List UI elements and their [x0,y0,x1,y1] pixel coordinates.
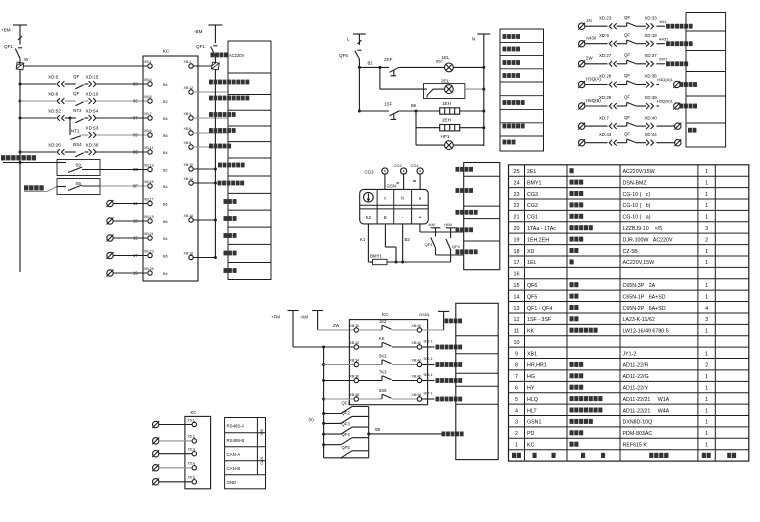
svg-text:+BM: +BM [1,28,11,33]
svg-text:14: 14 [514,294,520,300]
breaker contact QF4 [322,432,369,446]
svg-text:+FM: +FM [271,315,280,320]
pin label minus [402,214,404,220]
pin label c [384,196,387,201]
wire label B4 [163,151,168,155]
terminal XB:30 [350,324,360,332]
supply -KM with breaker QF4 [425,222,464,255]
svg-text:1SF: 1SF [384,101,393,106]
svg-text:PD: PD [527,431,535,437]
BOM row 19 1EH,2EH [514,237,709,244]
wire b pin stub [385,224,397,264]
svg-text:X5:5: X5:5 [188,476,195,480]
wire K1 [360,224,373,262]
svg-text:1EL: 1EL [442,55,451,60]
svg-text:X5:2: X5:2 [188,435,195,439]
svg-text:LZZBJ9-10 ×/5: LZZBJ9-10 ×/5 [623,226,663,232]
sensor CG1 [411,163,424,174]
exit wire 905-1 [422,373,435,380]
terminal XB:19 [144,215,154,223]
wire label B4 [163,237,168,241]
spare wire terminal row y255 [107,252,148,259]
svg-text:11: 11 [133,201,138,206]
svg-text:XB:6: XB:6 [184,127,192,131]
group label CAN [260,457,264,465]
contact row XD:5 / QF / XD:15 [19,74,148,89]
description text row [456,210,478,215]
svg-text:XB:1: XB:1 [144,60,152,64]
svg-text:H5Q(B)1: H5Q(B)1 [657,99,674,104]
BOM row 7 HG [515,373,708,380]
terminal XB:15 [144,180,154,188]
svg-text:XB:3: XB:3 [144,78,152,82]
svg-text:XB:10: XB:10 [184,163,194,167]
svg-text:XB:18: XB:18 [184,251,194,255]
svg-text:B2: B2 [368,60,374,65]
svg-text:1: 1 [705,397,708,403]
label CAN-A [227,452,241,457]
contact row XD:28 / QF / XD:38 [578,73,680,88]
label kongzhi dianyuan AC220V [211,53,245,59]
wire minus pin [401,224,410,264]
svg-text:HLQ: HLQ [527,397,538,403]
svg-text:XD:43: XD:43 [599,132,612,137]
wire row3 [359,110,389,112]
output description text [442,432,464,437]
svg-text:6: 6 [515,386,518,392]
svg-text:QF: QF [73,74,80,79]
svg-text:KC: KC [382,312,389,318]
signal table RS485/CAN [225,418,266,489]
svg-text:1SF - 3SF: 1SF - 3SF [527,317,552,323]
svg-text:QF5: QF5 [527,294,537,300]
terminal XB:36 [350,374,360,382]
pin label K2 [366,215,372,220]
svg-text:1: 1 [705,260,708,266]
comm wire terminal X5:5 [152,476,196,486]
svg-text:DXN8D-10Q: DXN8D-10Q [623,420,653,426]
svg-text:1EL: 1EL [527,260,536,266]
pin label b [401,196,404,201]
breaker contact QF1 [322,401,369,415]
svg-text:XD:15: XD:15 [86,75,99,80]
description text row [503,124,525,129]
terminal XB:13 [144,163,154,171]
BOM row 12 1SF - 3SF [514,316,709,323]
svg-text:DSN-BMZ: DSN-BMZ [623,180,648,186]
svg-text:485: 485 [260,429,264,435]
BOM row 13 QF1 - QF4 [514,305,709,312]
left feeder bus [323,347,325,458]
svg-text:7K3: 7K3 [379,370,387,375]
svg-text:PDM-803AC: PDM-803AC [623,431,653,437]
svg-text:22: 22 [514,203,520,209]
description text row [456,167,474,172]
svg-text:HY: HY [527,386,535,392]
svg-text:15: 15 [514,283,520,289]
svg-text:XD:10: XD:10 [86,92,99,97]
terminal XB:2 [184,60,213,68]
svg-text:XB:5: XB:5 [144,95,152,99]
svg-text:QF3: QF3 [342,421,351,426]
terminal XB:10 [184,163,217,171]
svg-text:CG-10 ( a): CG-10 ( a) [623,215,651,221]
svg-text:18: 18 [514,249,520,255]
description text row [503,60,521,65]
svg-text:HP1: HP1 [441,134,450,139]
BOM row 5 HLQ [515,396,708,403]
sensor CG2 [394,163,407,174]
terminal XB:40 [412,324,422,332]
terminal XB:18 [184,251,217,259]
svg-text:B2: B2 [163,100,168,104]
svg-text:13: 13 [133,219,138,224]
row description text [666,61,688,66]
wire BMY1 to +KM branch [387,261,451,263]
svg-text:QF5: QF5 [342,445,351,450]
svg-text:XB:19: XB:19 [144,215,154,219]
wire row1 (gray) [318,323,355,330]
sensor CG3 [365,168,389,174]
description box A [228,41,271,280]
description text row [209,80,249,85]
terminal XB:1 [144,60,152,68]
svg-text:QF: QF [73,91,80,96]
terminal XB:21 [144,232,154,240]
BOM row 6 HY [515,385,708,392]
svg-text:CG-10 ( b): CG-10 ( b) [623,203,651,209]
svg-text:17: 17 [133,253,138,258]
description box D [464,163,500,270]
svg-text:XB:14: XB:14 [184,177,194,181]
svg-text:1: 1 [705,192,708,198]
svg-text:0B: 0B [133,150,138,155]
wire 2EL to N [465,88,485,91]
svg-text:X5:4: X5:4 [188,462,195,466]
svg-text:XD:40: XD:40 [645,115,658,120]
svg-text:KC: KC [163,49,170,55]
svg-text:1: 1 [705,408,708,414]
svg-text:XB:9: XB:9 [144,129,152,133]
svg-text:XD:29: XD:29 [599,95,612,100]
svg-text:B6: B6 [411,103,417,108]
svg-text:902-1: 902-1 [424,357,433,361]
description spare row [224,216,237,221]
description text row [218,181,245,186]
svg-text:KC: KC [527,443,535,449]
svg-text:CG2: CG2 [394,163,403,168]
pin label B [384,215,387,220]
svg-text:KK: KK [379,336,385,341]
contact row XD:9 / QF / XD:19 [578,32,669,47]
spare wire terminal row y238 [107,235,148,242]
svg-text:XD:39: XD:39 [645,95,658,100]
wire 1EH to N [460,110,486,113]
exit wire 901-1 [422,340,435,347]
row description text [436,378,463,383]
svg-text:XD:28: XD:28 [599,74,612,79]
BOM row 9 XB1 [515,351,708,357]
svg-text:XB:42: XB:42 [412,341,422,345]
svg-text:C65N-1P 6A+SD: C65N-1P 6A+SD [623,294,666,300]
svg-text:CAN-B: CAN-B [227,466,241,471]
svg-text:QF2: QF2 [342,411,351,416]
terminal XB:9 [144,129,152,137]
svg-text:NT1: NT1 [71,129,80,134]
svg-text:XB1: XB1 [527,351,537,357]
svg-text:CG3: CG3 [365,169,375,174]
description text row [503,34,521,39]
svg-text:B2: B2 [163,168,168,172]
svg-text:24: 24 [514,180,520,186]
svg-text:8: 8 [515,363,518,369]
svg-text:1: 1 [705,329,708,335]
svg-text:XB:32: XB:32 [350,341,360,345]
svg-text:07: 07 [133,116,138,121]
power rail L [347,34,366,45]
svg-text:XD:9: XD:9 [599,33,609,38]
wire label B6 [163,202,168,206]
contact 5K2 [359,354,418,365]
svg-text:2EL: 2EL [441,79,450,84]
comm wire terminal X5:4 [152,462,196,472]
svg-text:B5: B5 [163,117,168,121]
svg-text:XB:17: XB:17 [144,197,154,201]
node W [24,57,29,62]
lamp HP1 [441,134,454,150]
junction L bus row1 [358,66,361,69]
svg-text:0F: 0F [133,184,138,189]
terminal XB:6 [184,127,228,135]
power rail -BM [194,25,222,49]
svg-text:B62: B62 [436,59,443,63]
terminal XB:42 [412,341,422,349]
comm wire terminal X5:1 [152,418,196,428]
BOM row 22 CG2 [514,202,709,209]
wire row1 to supply tap [422,311,450,330]
row description text [680,82,698,87]
svg-text:AD11-22/21 W1A: AD11-22/21 W1A [623,397,670,403]
svg-text:XB:30: XB:30 [350,324,360,328]
svg-text:16: 16 [514,272,520,278]
svg-text:3: 3 [705,317,708,323]
label jie zidong zhuangzhi dianyuan [1,155,36,160]
svg-text:B: B [384,215,387,220]
switch box S9 upper [3,160,100,176]
BOM row 18 XD [514,248,709,255]
row description text [666,24,693,29]
svg-text:CG3: CG3 [527,192,538,198]
contact 7K3 [359,370,418,381]
svg-text:(n): (n) [309,417,315,422]
svg-text:B4: B4 [163,185,168,189]
svg-text:1: 1 [705,431,708,437]
svg-text:QF4: QF4 [425,242,434,247]
label RS485-A [227,423,245,428]
svg-text:1: 1 [705,180,708,186]
terminal XB:46 [412,374,422,382]
terminal XB:44 [412,358,422,366]
svg-text:CG1: CG1 [411,163,420,168]
svg-text:1: 1 [705,169,708,175]
label GND [227,480,237,485]
row1 description text [445,319,463,324]
svg-text:QF: QF [624,115,630,120]
svg-text:1K2: 1K2 [379,319,387,324]
svg-text:05: 05 [133,99,138,104]
svg-text:-BM: -BM [194,29,203,34]
label CAN-B [227,466,241,471]
output wire XB [367,427,441,435]
svg-text:QF1: QF1 [342,401,351,406]
svg-text:W: W [24,57,29,62]
svg-text:AD11-22/Y: AD11-22/Y [623,386,649,392]
terminal XB:8 [184,141,228,149]
comm wire terminal X5:3 [152,448,196,458]
svg-text:B2: B2 [405,237,411,242]
svg-text:GSN1: GSN1 [419,312,431,317]
device GSN1 box [360,189,429,224]
svg-text:905-1: 905-1 [424,373,433,377]
supply +KM with breaker QF4 [444,222,461,262]
contact 5S6 [359,388,418,399]
label shiyan anniu [24,185,44,190]
description text row [218,163,245,168]
wire HP1 to N [453,144,484,146]
svg-text:1EH,2EH: 1EH,2EH [527,237,549,243]
svg-text:4: 4 [705,306,708,312]
svg-text:2: 2 [515,431,518,437]
svg-text:XD:38: XD:38 [645,74,658,79]
svg-text:AC220V/15W: AC220V/15W [623,169,655,175]
svg-text:XD:36: XD:36 [86,143,99,148]
description spare row [224,268,237,273]
svg-text:REF615 K: REF615 K [623,443,648,449]
svg-text:B4: B4 [163,83,168,87]
svg-text:2EL: 2EL [527,169,536,175]
svg-text:AD11-22/G: AD11-22/G [623,374,649,380]
wire row5 [416,144,445,146]
terminal square node W [16,62,24,70]
svg-text:XD:44: XD:44 [645,132,658,137]
BOM row 17 1EL [514,259,709,266]
wire S9 lower to terminal [100,184,147,189]
contact row XD:27 / QF / XD:37 [578,53,668,68]
svg-text:XB:12: XB:12 [184,86,194,90]
svg-text:7: 7 [515,374,518,380]
row description text [666,41,693,46]
BOM row 2 PD [515,430,708,437]
svg-text:1: 1 [705,249,708,255]
svg-text:19: 19 [514,237,520,243]
svg-text:CAN: CAN [260,457,264,465]
terminal XB:12 [184,86,228,94]
svg-text:L: L [347,37,350,42]
svg-text:CZ-5B: CZ-5B [623,249,639,255]
description box E [456,303,498,459]
svg-text:XB:11: XB:11 [144,146,153,150]
row description text [436,345,463,350]
row description text [436,362,463,367]
svg-text:QF1: QF1 [4,44,13,49]
svg-text:H3Q(A)1: H3Q(A)1 [657,77,674,82]
breaker contact QF3 [322,421,369,435]
ladder output bus [368,407,370,458]
description box B [500,29,544,151]
svg-text:XB:2: XB:2 [184,60,192,64]
heater 2EH [440,118,460,131]
svg-text:4: 4 [515,408,518,414]
label B2 [368,60,374,65]
svg-text:2SF: 2SF [384,57,393,62]
svg-text:19: 19 [133,271,138,276]
spare wire terminal row y221 [107,218,148,225]
svg-text:2W1: 2W1 [659,56,668,61]
svg-text:03: 03 [133,82,138,87]
BOM row 8 HR,HR1 [515,362,708,369]
svg-text:XB:46: XB:46 [412,374,422,378]
terminal XB:23 [144,249,154,257]
svg-text:KK: KK [527,329,535,335]
description text row [209,144,231,149]
svg-text:3: 3 [515,420,518,426]
description text row [209,128,236,133]
svg-text:17: 17 [514,260,520,266]
svg-text:K1: K1 [360,237,366,242]
svg-text:2W: 2W [586,56,593,61]
wire label B4 [163,83,168,87]
svg-text:BS4: BS4 [73,142,82,147]
description spare row [224,199,237,204]
wire label B2 [163,168,168,172]
spare wire terminal row y273 [107,270,148,277]
svg-text:XD:54: XD:54 [86,109,99,114]
svg-text:QF5: QF5 [339,53,348,58]
contact row XD:43 / QF / XD:44 [578,131,681,146]
description text row [503,100,525,105]
contact row NT1 / XD:53 (gray wire) [71,126,148,140]
exit wire 907-1 [422,392,435,399]
feeder rung wire [322,363,354,366]
svg-text:1N: 1N [586,18,592,23]
svg-text:QF: QF [624,15,630,20]
svg-text:9: 9 [515,351,518,357]
minus BM signal bus [214,69,216,257]
svg-text:XD:37: XD:37 [645,53,658,58]
svg-text:QF: QF [624,73,630,78]
svg-text:B6: B6 [163,254,168,258]
contact row XD:23 / QF / XD:33 [578,15,667,30]
terminal XB:17 [144,197,154,205]
svg-text:BMY1: BMY1 [527,180,541,186]
BOM row 24 BMY1 [514,180,709,187]
svg-text:XD:53: XD:53 [86,126,99,131]
svg-text:XD:8: XD:8 [48,92,59,97]
svg-text:B6: B6 [163,134,168,138]
wire row2 [293,346,354,349]
svg-text:XD:7: XD:7 [599,115,609,120]
svg-text:B4: B4 [163,272,168,276]
terminal strip KC comm [185,410,211,489]
description spare row [224,251,237,256]
breaker QF1 [4,44,22,66]
svg-text:C65N-2P 6A+SD: C65N-2P 6A+SD [623,306,666,312]
svg-text:RS485-A: RS485-A [227,423,245,428]
svg-text:XB:40: XB:40 [412,324,422,328]
pin label plus [418,215,421,221]
terminal XB:7 [144,112,152,120]
svg-text:XD:33: XD:33 [645,15,658,20]
